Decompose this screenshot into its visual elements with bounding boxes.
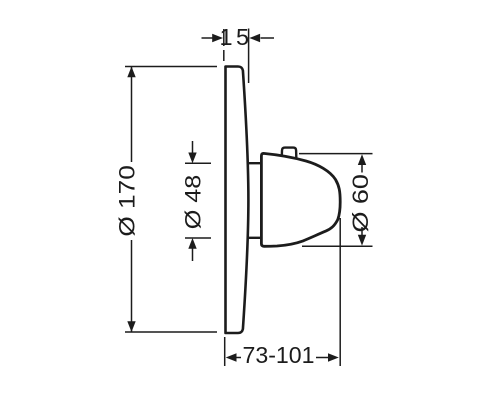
svg-text:1: 1 [219,24,232,50]
svg-text:73-101: 73-101 [243,342,315,368]
svg-text:5: 5 [236,24,249,50]
svg-text:Ø 60: Ø 60 [348,174,373,233]
svg-text:Ø 170: Ø 170 [115,165,140,237]
svg-text:Ø 48: Ø 48 [180,175,205,230]
